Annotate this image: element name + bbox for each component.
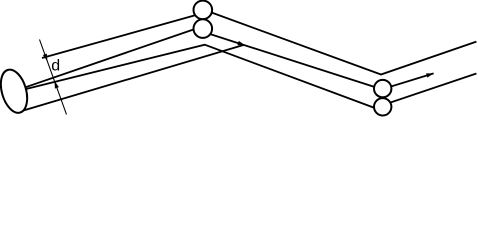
- svg-text:d: d: [51, 58, 60, 75]
